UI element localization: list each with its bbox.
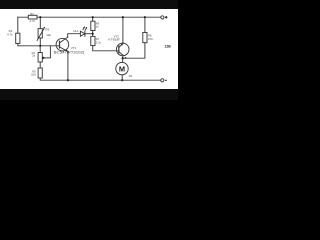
wire trimmer tap xyxy=(43,46,50,58)
wire R8 bottom to motor node xyxy=(123,43,145,59)
wire pot drop xyxy=(39,17,41,28)
node R8 top xyxy=(144,16,146,18)
wire R5 bottom corner xyxy=(40,78,161,80)
svg-text:100: 100 xyxy=(31,73,36,77)
transistor VT2 xyxy=(116,43,129,56)
wire pot bottom xyxy=(39,38,41,46)
svg-text:КТ818Г: КТ818Г xyxy=(108,37,121,41)
potentiometer R3 xyxy=(38,29,42,38)
wire top rail xyxy=(18,16,161,18)
wire R7 bottom to VT2 base xyxy=(93,46,119,51)
wire R4 to R5 xyxy=(39,62,41,68)
terminal - circle xyxy=(161,79,164,82)
sign marks xyxy=(125,16,168,80)
arrow VT2 emitter xyxy=(121,44,123,46)
transistor VT1 xyxy=(56,38,69,51)
svg-text:150: 150 xyxy=(148,37,153,41)
resistor R2 xyxy=(28,15,37,19)
resistor R7 xyxy=(91,36,95,45)
wire R1 bottom corner xyxy=(18,43,60,45)
wire VT1 emitter xyxy=(67,52,69,81)
node motor plus xyxy=(122,57,124,59)
terminal + circle xyxy=(161,16,164,19)
svg-text:HL1: HL1 xyxy=(73,29,79,33)
node trimmer tap xyxy=(42,57,44,59)
arrow LED light 1 xyxy=(83,27,85,29)
wire LED to node xyxy=(85,33,93,35)
top letterbox bar xyxy=(0,0,178,9)
wire motor bottom xyxy=(121,75,123,80)
wire VT2 collector to motor xyxy=(122,55,124,62)
resistor R8 xyxy=(143,33,147,43)
arrow pot xyxy=(43,27,45,29)
trimmer R4 xyxy=(38,53,42,63)
motor M1 xyxy=(116,62,128,74)
wire R6 to node xyxy=(92,30,94,36)
svg-text:M: M xyxy=(119,64,125,73)
svg-text:4.7к: 4.7к xyxy=(29,19,35,23)
junction dots xyxy=(39,16,146,81)
wire VT1 collector xyxy=(68,34,81,37)
arrow LED light 2 xyxy=(85,27,87,29)
wire R6 top drop xyxy=(92,17,94,21)
svg-text:R3: R3 xyxy=(45,27,49,31)
svg-text:VT1: VT1 xyxy=(71,46,77,50)
label supply minus xyxy=(165,79,167,81)
svg-text:10к: 10к xyxy=(46,33,51,37)
label motor plus xyxy=(125,57,127,59)
LED HL1 xyxy=(80,31,84,36)
arrow VT1 emitter xyxy=(66,49,68,51)
background xyxy=(0,0,178,100)
resistor R1 xyxy=(16,33,20,43)
resistor R5 xyxy=(38,68,42,78)
node R6 top xyxy=(92,16,94,18)
bottom letterbox bar xyxy=(0,89,178,100)
svg-text:2.2к: 2.2к xyxy=(96,40,102,44)
node motor minus rail xyxy=(121,79,123,81)
wire VT2 emitter to rail xyxy=(122,17,124,43)
svg-text:BC547(КТ3102): BC547(КТ3102) xyxy=(54,51,85,55)
svg-text:12В: 12В xyxy=(165,45,172,49)
wire R8 drop xyxy=(144,17,146,32)
resistor R6 xyxy=(91,21,95,30)
svg-text:M1: M1 xyxy=(129,74,133,78)
node pot top xyxy=(39,16,41,18)
wire left drop to R1 xyxy=(17,17,19,33)
node base divider xyxy=(39,45,41,47)
label supply plus xyxy=(165,16,168,18)
node VT2 emitter rail xyxy=(122,16,124,18)
labels xyxy=(7,12,171,78)
wire trimmer drop xyxy=(39,46,41,53)
svg-text:4.7к: 4.7к xyxy=(7,33,13,37)
svg-text:R2: R2 xyxy=(30,12,34,16)
node VT1 emitter rail xyxy=(67,79,69,81)
node LED cathode xyxy=(92,33,94,35)
